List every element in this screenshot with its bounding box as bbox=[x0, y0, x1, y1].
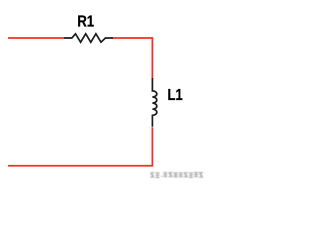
inductor L1 bbox=[152, 78, 156, 127]
resistor R1 bbox=[64, 34, 113, 42]
wire: top-right horizontal red and right vertical down to inductor bbox=[113, 38, 152, 79]
watermark bottom-right bbox=[150, 173, 203, 178]
svg-text:R1: R1 bbox=[77, 14, 94, 31]
svg-text:L1: L1 bbox=[168, 87, 183, 104]
wire: top-left horizontal red from left terminal to resistor bbox=[8, 37, 64, 39]
wire: right vertical red below inductor and bottom horizontal red bbox=[8, 127, 152, 166]
